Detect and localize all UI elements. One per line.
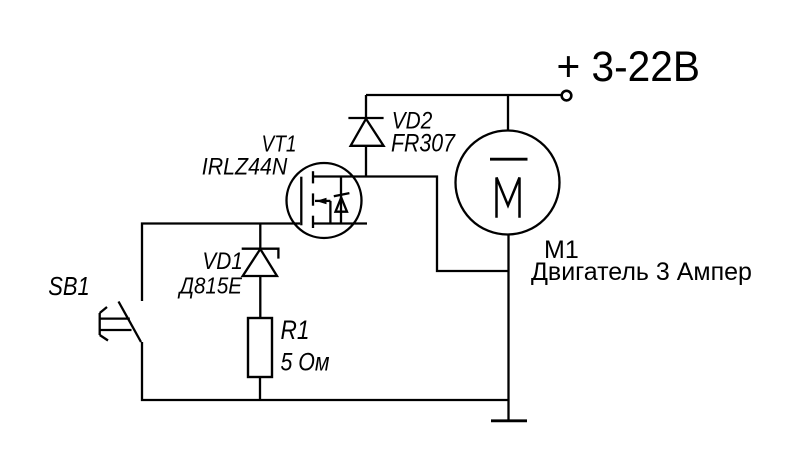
- terminal +3-22V open circle: [562, 91, 572, 101]
- wire gate run to SB1 top: [142, 224, 300, 302]
- svg-text:VT1: VT1: [262, 130, 297, 156]
- zener VD1 wire top: [259, 224, 261, 249]
- pushbutton SB1 actuator bottom serif: [100, 335, 108, 341]
- motor M1 top wire: [507, 95, 509, 131]
- transistor VT1 gate electrode: [300, 177, 302, 226]
- transistor VT1 substrate arrow line: [315, 200, 330, 202]
- svg-text:R1: R1: [281, 315, 310, 345]
- zener VD1 triangle: [243, 249, 277, 276]
- wire top +V rail: [366, 94, 562, 96]
- wire drain node to motor bottom: [313, 177, 509, 272]
- diode VD2 cathode bar: [348, 117, 383, 119]
- transistor VT1 channel segment top: [312, 171, 314, 183]
- pushbutton SB1 blade: [119, 302, 142, 343]
- transistor VT1 substrate drop wire: [329, 201, 331, 224]
- pushbutton SB1 rod upper: [100, 317, 130, 319]
- motor M1 circle: [456, 131, 560, 235]
- motor M1 bottom wire to ground: [507, 235, 509, 421]
- transistor VT1 body diode triangle: [336, 198, 348, 212]
- pushbutton SB1 actuator stem: [99, 313, 101, 335]
- transistor VT1 source line: [313, 222, 367, 224]
- wire SB1 bottom and ground rail: [142, 342, 509, 400]
- transistor VT1 body circle: [287, 163, 362, 238]
- diode VD2 wire anode: [365, 146, 367, 177]
- resistor R1 body: [248, 318, 272, 377]
- svg-text:FR307: FR307: [391, 129, 456, 157]
- svg-text:+ 3-22В: + 3-22В: [557, 43, 701, 91]
- svg-text:5 Ом: 5 Ом: [281, 349, 330, 377]
- svg-text:VD1: VD1: [202, 248, 243, 275]
- svg-text:Двигатель 3 Ампер: Двигатель 3 Ампер: [531, 258, 752, 286]
- motor M1 letter M: [497, 178, 520, 218]
- pushbutton SB1 rod lower: [100, 329, 132, 331]
- diode VD2 triangle: [351, 119, 384, 146]
- transistor VT1 channel segment middle: [312, 193, 314, 205]
- transistor VT1 substrate arrowhead: [316, 198, 327, 205]
- zener VD1 wire bottom: [259, 276, 261, 318]
- resistor R1 wire bottom: [259, 377, 261, 400]
- zener VD1 cathode bar with tail: [242, 249, 279, 259]
- pushbutton SB1 actuator top serif: [100, 307, 107, 313]
- transistor VT1 body diode cathode bar: [334, 193, 350, 196]
- ground symbol bar: [491, 419, 527, 422]
- transistor VT1 body diode wire: [340, 177, 342, 224]
- svg-text:IRLZ44N: IRLZ44N: [202, 154, 288, 181]
- diode VD2 wire cathode: [365, 95, 367, 118]
- svg-text:SB1: SB1: [48, 271, 89, 301]
- svg-text:Д815Е: Д815Е: [177, 273, 242, 299]
- transistor VT1 channel segment bottom: [312, 216, 314, 228]
- motor M1 overline: [490, 158, 528, 161]
